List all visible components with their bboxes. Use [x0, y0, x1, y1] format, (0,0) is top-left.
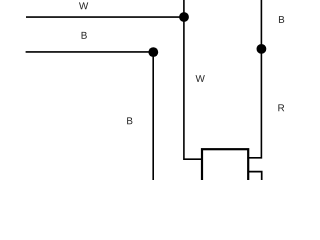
label B (second wire)	[82, 32, 87, 39]
wire R bottom stub	[248, 172, 262, 180]
junction dot W	[179, 12, 189, 22]
label W (top wire)	[79, 2, 88, 9]
label W (vertical wire)	[196, 75, 205, 82]
wire B right vertical into box	[247, 0, 261, 158]
wire W vertical drop to box	[184, 0, 202, 159]
label R (right wire lower)	[278, 104, 284, 111]
junction dot right	[257, 44, 267, 54]
wire B vertical drop to bottom	[152, 52, 154, 180]
wire B horizontal	[26, 51, 154, 53]
label B (left bottom vertical)	[127, 117, 132, 124]
component box	[202, 149, 248, 189]
label B (right wire)	[279, 16, 284, 23]
junction dot B	[148, 47, 158, 57]
wire W horizontal top	[26, 16, 184, 18]
